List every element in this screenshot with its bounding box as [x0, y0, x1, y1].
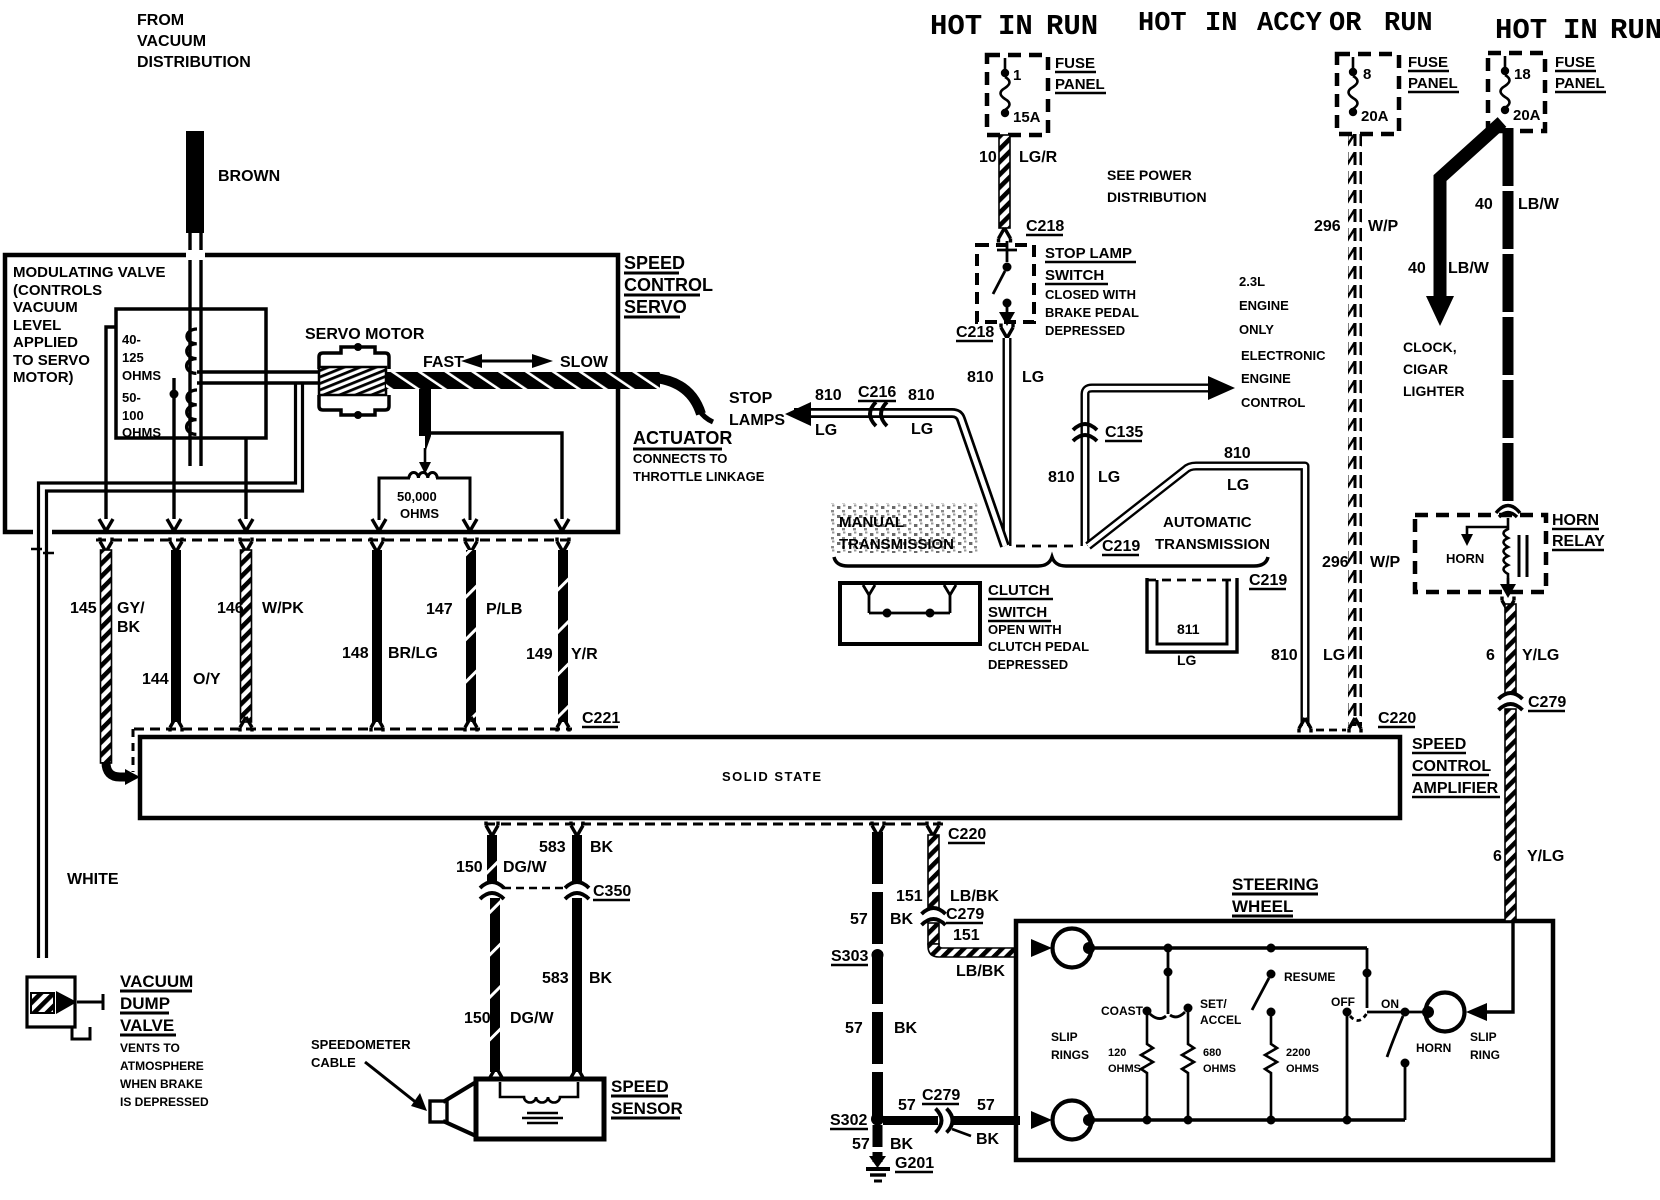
svg-text:RELAY: RELAY — [1552, 533, 1605, 550]
svg-text:OHMS: OHMS — [400, 506, 439, 521]
svg-text:8: 8 — [1363, 66, 1371, 83]
svg-text:DISTRIBUTION: DISTRIBUTION — [1107, 189, 1207, 205]
svg-text:PANEL: PANEL — [1055, 76, 1105, 93]
wire 10 LG/R — [999, 135, 1011, 243]
box modulating valve inner — [116, 309, 266, 438]
wire Y/LG inside wheel — [1487, 923, 1513, 1012]
splice S303 — [872, 949, 884, 961]
label HORN RELAY — [1552, 512, 1605, 550]
connector C218 lower fork — [1001, 324, 1013, 339]
arrow to electronic engine control — [1208, 376, 1235, 400]
label 296 W/P (lower) — [1322, 554, 1401, 571]
label 40 LB/W (clock) — [1408, 260, 1490, 277]
vacuum dump valve — [27, 977, 103, 1039]
svg-text:CLUTCH: CLUTCH — [988, 582, 1050, 599]
connector C219 (811 box dashes) — [1147, 579, 1237, 582]
brace transmission types — [834, 557, 1268, 566]
wire 149 Y/R — [557, 550, 569, 732]
svg-text:120: 120 — [1108, 1047, 1126, 1059]
label SERVO MOTOR — [305, 326, 425, 343]
label 810 LG (switch wire) — [967, 369, 1044, 386]
label fuse 8 / 20A — [1361, 66, 1389, 125]
svg-text:FROM: FROM — [137, 12, 184, 29]
label SPEEDOMETER CABLE with arrow — [311, 1037, 427, 1111]
svg-text:CONTROL: CONTROL — [1241, 395, 1305, 410]
svg-text:C279: C279 — [946, 906, 984, 923]
svg-text:HORN: HORN — [1416, 1041, 1451, 1055]
coil modulating valve upper winding — [186, 329, 197, 373]
svg-text:LG: LG — [911, 421, 933, 438]
svg-text:10: 10 — [979, 149, 997, 166]
svg-text:810: 810 — [1271, 647, 1298, 664]
label C221 — [582, 710, 620, 727]
label C220 (right) — [1316, 710, 1416, 730]
svg-text:RUN: RUN — [1046, 10, 1098, 43]
svg-text:LG: LG — [815, 422, 837, 439]
fuse panel 3 (HOT IN RUN right) — [1488, 53, 1545, 131]
svg-text:C220: C220 — [948, 826, 986, 843]
svg-text:BK: BK — [890, 911, 914, 928]
svg-text:CABLE: CABLE — [311, 1055, 356, 1070]
servo motor body — [319, 343, 389, 419]
svg-text:LG: LG — [1323, 647, 1345, 664]
svg-text:HOT: HOT — [930, 10, 982, 43]
label 810 LG (C135 wire) — [1048, 469, 1120, 486]
label 10 LG/R — [979, 149, 1058, 166]
label HORN (wheel) — [1416, 1041, 1451, 1055]
label FAST / SLOW with double arrow — [423, 354, 609, 371]
connector C219 (dashed between junctions) — [1016, 545, 1078, 548]
svg-text:MODULATING VALVE: MODULATING VALVE — [13, 264, 166, 281]
label SLIP RING (right) — [1470, 1030, 1500, 1062]
svg-text:57: 57 — [852, 1136, 870, 1153]
svg-text:IN: IN — [1205, 9, 1237, 39]
svg-text:PANEL: PANEL — [1555, 75, 1605, 92]
wire BROWN vacuum hose supply (thick bar) — [186, 131, 204, 233]
label FUSE PANEL 3 — [1555, 54, 1606, 92]
header HOT IN RUN (left) — [930, 10, 1098, 43]
svg-text:C220: C220 — [1378, 710, 1416, 727]
svg-text:FAST: FAST — [423, 354, 464, 371]
svg-text:AMPLIFIER: AMPLIFIER — [1412, 780, 1499, 797]
label C218 (upper) — [1026, 218, 1064, 235]
connector C350 — [480, 882, 589, 899]
wire 6 Y/LG (lower) — [1505, 709, 1516, 921]
wire 810 LG diagonal to amplifier — [1088, 466, 1311, 733]
svg-text:ACCEL: ACCEL — [1200, 1013, 1241, 1027]
label C135 — [1105, 424, 1143, 441]
stop lamp switch — [977, 241, 1034, 326]
svg-text:C219: C219 — [1249, 572, 1287, 589]
svg-text:BK: BK — [589, 970, 613, 987]
svg-text:150: 150 — [464, 1010, 491, 1027]
label C350 — [593, 883, 631, 900]
svg-text:LB/BK: LB/BK — [950, 888, 999, 905]
connector line servo (upper dashed) — [96, 538, 570, 553]
svg-text:CONNECTS TO: CONNECTS TO — [633, 451, 727, 466]
svg-text:IS DEPRESSED: IS DEPRESSED — [120, 1095, 209, 1109]
resistor 2200 OHMS — [1265, 1016, 1277, 1120]
svg-text:WHEEL: WHEEL — [1232, 897, 1293, 916]
label SEE POWER DISTRIBUTION — [1107, 167, 1207, 205]
connector C221 (lower dashed line) — [133, 729, 572, 772]
svg-text:2200: 2200 — [1286, 1047, 1310, 1059]
slip ring 1 (top left) — [1053, 929, 1096, 968]
label FUSE PANEL 1 — [1055, 55, 1106, 93]
svg-text:IN: IN — [1563, 14, 1598, 47]
svg-text:SET/: SET/ — [1200, 997, 1227, 1011]
svg-text:810: 810 — [908, 387, 935, 404]
svg-text:40-: 40- — [122, 332, 141, 347]
svg-text:57: 57 — [850, 911, 868, 928]
label MODULATING VALVE (CONTROLS VACUUM LEVEL APPLIED TO SERVO MOTOR) — [13, 264, 166, 386]
svg-text:WHEN BRAKE: WHEN BRAKE — [120, 1077, 203, 1091]
svg-text:680: 680 — [1203, 1047, 1221, 1059]
svg-text:HOT: HOT — [1495, 14, 1547, 47]
resistor 50,000 OHMS — [372, 473, 477, 531]
wire 148 BR/LG — [371, 550, 383, 732]
svg-text:RINGS: RINGS — [1051, 1048, 1089, 1062]
svg-text:CLOSED WITH: CLOSED WITH — [1045, 287, 1136, 302]
wire 57 BK horizontal to slip ring — [883, 1112, 1020, 1129]
wire 150 DG/W (lower) — [490, 898, 502, 1082]
svg-text:DG/W: DG/W — [510, 1010, 554, 1027]
svg-text:Y/LG: Y/LG — [1522, 647, 1559, 664]
svg-text:LB/W: LB/W — [1518, 196, 1560, 213]
svg-text:RESUME: RESUME — [1284, 970, 1335, 984]
wire 810 LG to electronic engine control — [1085, 388, 1210, 546]
svg-text:ELECTRONIC: ELECTRONIC — [1241, 348, 1326, 363]
label SLIP RINGS — [1051, 1030, 1089, 1062]
label COAST — [1101, 1004, 1144, 1018]
svg-text:OFF: OFF — [1331, 995, 1355, 1009]
label 296 W/P (upper) — [1314, 218, 1399, 235]
svg-text:C135: C135 — [1105, 424, 1143, 441]
label 145 GY/BK — [70, 600, 145, 636]
header HOT IN ACCY OR RUN — [1138, 9, 1433, 39]
label 147 P/LB — [426, 601, 522, 618]
label 57 BK (middle) — [845, 1020, 918, 1037]
label 2200 OHMS — [1286, 1047, 1319, 1075]
connector C220 (dashed line below solid state) — [485, 822, 945, 837]
label BROWN — [218, 168, 280, 185]
svg-text:SWITCH: SWITCH — [988, 604, 1047, 621]
label 810 LG (vertical) — [1271, 647, 1345, 664]
switch HORN (steering wheel) — [1387, 1008, 1410, 1121]
svg-text:CONTROL: CONTROL — [1412, 758, 1491, 775]
svg-text:FUSE: FUSE — [1055, 55, 1095, 72]
svg-text:P/LB: P/LB — [486, 601, 522, 618]
svg-text:SLOW: SLOW — [560, 354, 609, 371]
wire 151 LB/BK (from C220) — [928, 835, 939, 909]
wire 583 BK (upper) — [572, 835, 582, 884]
label 146 W/PK — [217, 600, 304, 617]
box STEERING WHEEL — [1016, 921, 1553, 1160]
svg-text:151: 151 — [953, 927, 980, 944]
svg-text:Y/LG: Y/LG — [1527, 848, 1564, 865]
svg-text:57: 57 — [977, 1097, 995, 1114]
label 2.3L ENGINE ONLY — [1239, 274, 1289, 337]
svg-text:TO SERVO: TO SERVO — [13, 352, 90, 369]
svg-text:HORN: HORN — [1552, 512, 1599, 529]
label 57 C279 57 BK — [898, 1087, 1000, 1148]
label 810 LG (diagonal) — [1224, 445, 1251, 494]
svg-text:296: 296 — [1322, 554, 1349, 571]
svg-text:DG/W: DG/W — [503, 859, 547, 876]
svg-text:DEPRESSED: DEPRESSED — [988, 657, 1068, 672]
svg-text:583: 583 — [542, 970, 569, 987]
svg-text:HORN: HORN — [1446, 551, 1484, 566]
svg-text:OPEN WITH: OPEN WITH — [988, 622, 1062, 637]
svg-text:WHITE: WHITE — [67, 871, 119, 888]
svg-text:LB/BK: LB/BK — [956, 963, 1005, 980]
wire 40 LB/W to horn relay — [1503, 128, 1514, 502]
svg-text:BK: BK — [976, 1131, 1000, 1148]
component 811 LG shell — [1147, 578, 1237, 668]
svg-text:57: 57 — [898, 1097, 916, 1114]
fuse panel 2 (HOT IN ACCY OR RUN) — [1337, 54, 1399, 134]
svg-text:SOLID STATE: SOLID STATE — [722, 769, 823, 784]
svg-text:THROTTLE LINKAGE: THROTTLE LINKAGE — [633, 469, 765, 484]
fuse panel 1 (HOT IN RUN) — [987, 55, 1048, 135]
svg-text:IN: IN — [998, 10, 1033, 43]
svg-text:6: 6 — [1486, 647, 1495, 664]
svg-text:VACUUM: VACUUM — [13, 299, 78, 316]
label C218 (lower) — [956, 324, 994, 341]
label SPEED CONTROL AMPLIFIER — [1412, 736, 1500, 797]
svg-text:LG: LG — [1098, 469, 1120, 486]
label 6 Y/LG (upper) — [1486, 647, 1559, 664]
label C220 — [948, 826, 986, 843]
svg-text:SEE POWER: SEE POWER — [1107, 167, 1192, 183]
svg-text:SWITCH: SWITCH — [1045, 267, 1104, 284]
resistor 680 OHMS — [1182, 1012, 1194, 1120]
clutch switch — [840, 583, 980, 644]
svg-text:144: 144 — [142, 671, 169, 688]
wire 296 W/P — [1348, 134, 1362, 733]
label C219 — [1102, 538, 1140, 555]
svg-text:SERVO MOTOR: SERVO MOTOR — [305, 326, 425, 343]
label 144 O/Y — [142, 671, 221, 688]
label ACTUATOR CONNECTS TO THROTTLE LINKAGE — [633, 428, 765, 484]
slip ring 3 (right) — [1422, 993, 1465, 1032]
wire valve terminal 1 (left, to arrow) — [99, 327, 116, 531]
svg-text:HOT: HOT — [1138, 9, 1187, 39]
wire 146 W/PK — [240, 550, 252, 732]
speed sensor body — [430, 1079, 604, 1139]
label S302 — [830, 1112, 868, 1129]
label SPEED SENSOR — [611, 1077, 683, 1118]
svg-text:C219: C219 — [1102, 538, 1140, 555]
svg-text:VACUUM: VACUUM — [137, 33, 206, 50]
wire 810 LG to stop lamps (diagonal+horizontal) — [794, 413, 1005, 546]
svg-text:MANUAL: MANUAL — [839, 514, 904, 531]
svg-text:OHMS: OHMS — [122, 425, 161, 440]
horn relay coil and contacts — [1504, 518, 1528, 578]
svg-text:S302: S302 — [830, 1112, 867, 1129]
label fuse 18 / 20A — [1513, 66, 1541, 124]
svg-text:W/P: W/P — [1370, 554, 1401, 571]
svg-text:LIGHTER: LIGHTER — [1403, 383, 1464, 399]
coil modulating valve lower winding — [186, 390, 197, 434]
wire 40 LB/W to clock — [1426, 122, 1502, 326]
svg-text:LG: LG — [1227, 477, 1249, 494]
slip ring 2 (bottom left) — [1053, 1101, 1096, 1140]
label ELECTRONIC ENGINE CONTROL — [1241, 348, 1326, 410]
svg-text:LG: LG — [1022, 369, 1044, 386]
servo motor coil (hatched) — [319, 367, 386, 395]
svg-text:GY/: GY/ — [117, 600, 145, 617]
svg-text:C216: C216 — [858, 384, 896, 401]
svg-text:SPEEDOMETER: SPEEDOMETER — [311, 1037, 411, 1052]
label 120 OHMS — [1108, 1047, 1141, 1075]
svg-text:ENGINE: ENGINE — [1239, 298, 1289, 313]
svg-text:811: 811 — [1177, 621, 1200, 637]
label STOP LAMP SWITCH CLOSED WITH BRAKE PEDAL DEPRESSED — [1045, 245, 1139, 338]
label RESUME — [1284, 970, 1335, 984]
svg-text:FUSE: FUSE — [1408, 54, 1448, 71]
label 150 DG/W (upper) — [456, 859, 547, 876]
svg-text:ACTUATOR: ACTUATOR — [633, 428, 732, 448]
wire 145 GY/BK — [101, 550, 141, 785]
header HOT IN RUN (right) — [1495, 14, 1660, 47]
label WHITE — [67, 871, 119, 888]
label STOP LAMPS — [729, 390, 785, 429]
svg-text:296: 296 — [1314, 218, 1341, 235]
svg-text:OHMS: OHMS — [1108, 1063, 1141, 1075]
svg-text:C221: C221 — [582, 710, 620, 727]
wire vacuum hose (double line into modulating valve) — [190, 233, 201, 466]
label 57 BK (lower) + G201 — [852, 1136, 934, 1172]
svg-text:DEPRESSED: DEPRESSED — [1045, 323, 1125, 338]
svg-text:150: 150 — [456, 859, 483, 876]
svg-text:6: 6 — [1493, 848, 1502, 865]
label 57 BK (upper) — [850, 911, 914, 928]
svg-text:BK: BK — [890, 1136, 914, 1153]
label CLUTCH SWITCH OPEN WITH CLUTCH PEDAL DEPRESSED — [988, 582, 1089, 672]
svg-text:G201: G201 — [895, 1155, 934, 1172]
wire bar branch right to terminal 6 — [429, 433, 569, 531]
svg-text:O/Y: O/Y — [193, 671, 221, 688]
label SOLID STATE — [722, 769, 823, 784]
wire 6 Y/LG (upper) — [1505, 604, 1516, 693]
svg-text:40: 40 — [1475, 196, 1493, 213]
svg-text:20A: 20A — [1513, 107, 1541, 124]
svg-text:DISTRIBUTION: DISTRIBUTION — [137, 54, 251, 71]
switch COAST / SET-ACCEL common — [1164, 948, 1173, 1014]
wire bottom bus — [1089, 1116, 1405, 1125]
svg-text:OHMS: OHMS — [1286, 1063, 1319, 1075]
svg-text:18: 18 — [1514, 66, 1531, 83]
wire top bus — [1089, 944, 1367, 953]
label SPEED CONTROL SERVO — [624, 253, 713, 317]
box SOLID STATE amplifier — [140, 737, 1400, 818]
svg-text:ATMOSPHERE: ATMOSPHERE — [120, 1059, 204, 1073]
svg-text:BK: BK — [894, 1020, 918, 1037]
svg-text:SLIP: SLIP — [1051, 1030, 1078, 1044]
wire 57 BK (vertical from solid state) — [872, 832, 883, 1119]
switch RESUME — [1252, 970, 1276, 1017]
connector C135 — [1073, 424, 1097, 441]
arrow into slip ring 2 — [1031, 1111, 1052, 1129]
svg-text:SERVO: SERVO — [624, 297, 687, 317]
arrow into slip ring 3 — [1466, 1003, 1487, 1021]
svg-text:583: 583 — [539, 839, 566, 856]
arrow into slip ring 1 — [1031, 939, 1052, 957]
svg-text:LB/W: LB/W — [1448, 260, 1490, 277]
svg-text:145: 145 — [70, 600, 97, 617]
svg-text:57: 57 — [845, 1020, 863, 1037]
svg-text:TRANSMISSION: TRANSMISSION — [1155, 536, 1270, 553]
label AUTOMATIC TRANSMISSION — [1155, 514, 1270, 553]
label S303 — [831, 948, 868, 965]
switch SET/ACCEL — [1170, 1004, 1193, 1017]
svg-text:125: 125 — [122, 350, 144, 365]
svg-text:20A: 20A — [1361, 108, 1389, 125]
svg-text:STEERING: STEERING — [1232, 875, 1319, 894]
svg-text:W/P: W/P — [1368, 218, 1399, 235]
wire to HORN — [1461, 527, 1508, 546]
svg-text:VALVE: VALVE — [120, 1016, 174, 1035]
svg-text:SLIP: SLIP — [1470, 1030, 1497, 1044]
svg-text:810: 810 — [815, 387, 842, 404]
svg-text:TRANSMISSION: TRANSMISSION — [839, 536, 954, 553]
svg-text:50,000: 50,000 — [397, 489, 437, 504]
label 50-100 OHMS — [122, 390, 161, 440]
svg-text:40: 40 — [1408, 260, 1426, 277]
svg-text:FUSE: FUSE — [1555, 54, 1595, 71]
svg-text:C279: C279 — [922, 1087, 960, 1104]
svg-text:COAST: COAST — [1101, 1004, 1144, 1018]
svg-text:Y/R: Y/R — [571, 646, 598, 663]
label HORN (relay) — [1446, 551, 1484, 566]
wire 151 LB/BK (to slip ring) — [928, 923, 1016, 957]
svg-text:STOP: STOP — [729, 390, 773, 407]
label 810 LG / C216 / 810 LG — [815, 384, 935, 439]
label 40 LB/W (horn relay) — [1475, 196, 1560, 213]
svg-text:OHMS: OHMS — [1203, 1063, 1236, 1075]
label MANUAL TRANSMISSION (shaded) — [830, 503, 978, 553]
svg-text:LEVEL: LEVEL — [13, 317, 61, 334]
ground G201 — [866, 1156, 890, 1181]
label STEERING WHEEL — [1232, 875, 1319, 916]
connector C279 (151) — [922, 908, 946, 925]
label OFF ON — [1331, 995, 1399, 1011]
svg-text:CLOCK,: CLOCK, — [1403, 339, 1457, 355]
svg-text:C350: C350 — [593, 883, 631, 900]
label 583 BK (lower) — [542, 970, 613, 987]
svg-text:OR: OR — [1329, 9, 1362, 39]
svg-text:CONTROL: CONTROL — [624, 275, 713, 295]
svg-text:147: 147 — [426, 601, 453, 618]
svg-text:BK: BK — [590, 839, 614, 856]
svg-text:STOP LAMP: STOP LAMP — [1045, 245, 1132, 262]
svg-text:SENSOR: SENSOR — [611, 1099, 683, 1118]
svg-text:146: 146 — [217, 600, 244, 617]
svg-text:C279: C279 — [1528, 694, 1566, 711]
svg-text:DUMP: DUMP — [120, 994, 170, 1013]
svg-text:148: 148 — [342, 645, 369, 662]
connector C216 — [870, 402, 887, 426]
svg-text:1: 1 — [1013, 67, 1021, 84]
svg-text:RUN: RUN — [1610, 14, 1660, 47]
wire actuator drive (thick hatched bar) — [386, 372, 660, 389]
wire 57 BK to ground — [873, 1125, 883, 1162]
svg-text:151: 151 — [896, 888, 923, 905]
label VACUUM DUMP VALVE / VENTS TO ATMOSPHERE WHEN BRAKE IS DEPRESSED — [120, 972, 209, 1109]
svg-text:810: 810 — [967, 369, 994, 386]
horn relay box — [1415, 515, 1546, 592]
